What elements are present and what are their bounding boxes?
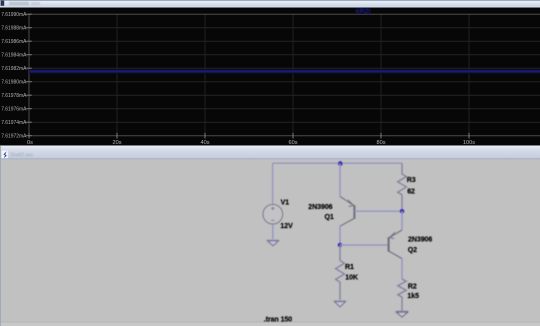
wire: top supply rail bbox=[273, 162, 402, 164]
transistor Q1 (2N3906 PNP, mirrored) bbox=[340, 196, 354, 226]
svg-text:Q2: Q2 bbox=[408, 247, 417, 254]
interior horizontal gridlines bbox=[29, 28, 540, 123]
svg-text:2N3906: 2N3906 bbox=[308, 204, 332, 211]
transistor Q2 (2N3906 PNP) bbox=[389, 230, 402, 259]
ground (R2) bbox=[396, 311, 408, 317]
svg-text:80s: 80s bbox=[376, 140, 385, 146]
svg-text:62: 62 bbox=[407, 189, 415, 196]
svg-text:2N3906: 2N3906 bbox=[408, 237, 432, 244]
svg-text:1k5: 1k5 bbox=[407, 293, 419, 300]
wire: V1 top lead bbox=[272, 163, 274, 204]
ground (V1) bbox=[267, 240, 278, 246]
svg-text:R2: R2 bbox=[408, 283, 417, 290]
svg-text:7.61974mA: 7.61974mA bbox=[1, 120, 27, 126]
svg-text:V1: V1 bbox=[281, 200, 290, 207]
circuit drawing bbox=[263, 161, 432, 323]
wire: Q1 emitter lead bbox=[339, 163, 341, 196]
voltage source V1 bbox=[263, 204, 283, 224]
svg-text:7.61988mA: 7.61988mA bbox=[1, 26, 27, 32]
resistor R2 bbox=[398, 279, 406, 311]
svg-text:20s: 20s bbox=[112, 140, 121, 146]
wire: V1 bottom lead bbox=[272, 224, 274, 239]
plot box border bbox=[29, 14, 540, 136]
svg-text:0s: 0s bbox=[27, 140, 33, 146]
x axis labels bbox=[27, 140, 475, 146]
axis ticks: x bbox=[29, 133, 469, 139]
svg-text:12V: 12V bbox=[280, 223, 293, 230]
wire: Q1 collector lead down bbox=[339, 226, 341, 245]
wire: Q2 emitter lead bbox=[401, 211, 403, 230]
svg-text:100s: 100s bbox=[463, 140, 475, 146]
svg-text:.tran 150: .tran 150 bbox=[264, 317, 293, 324]
svg-text:7.61978mA: 7.61978mA bbox=[1, 93, 27, 99]
resistor R3 bbox=[398, 163, 407, 211]
interior vertical gridlines bbox=[117, 14, 469, 136]
svg-text:7.61986mA: 7.61986mA bbox=[1, 39, 27, 45]
svg-text:Q1: Q1 bbox=[325, 214, 334, 221]
axis ticks: y bbox=[26, 14, 32, 136]
junction: R3 / Q1 base / Q2 emitter bbox=[400, 209, 404, 213]
wire: Q2 collector lead down bbox=[401, 259, 403, 279]
svg-text:7.61990mA: 7.61990mA bbox=[1, 12, 27, 18]
svg-text:I(R2): I(R2) bbox=[356, 8, 371, 15]
svg-text:10K: 10K bbox=[345, 275, 358, 282]
svg-text:40s: 40s bbox=[200, 140, 209, 146]
svg-text:7.61984mA: 7.61984mA bbox=[1, 53, 27, 59]
ground (R1) bbox=[334, 301, 345, 307]
svg-text:60s: 60s bbox=[288, 140, 297, 146]
y axis labels bbox=[1, 12, 27, 140]
svg-text:Draft2.asc: Draft2.asc bbox=[11, 153, 34, 159]
plot grid bbox=[26, 14, 540, 138]
svg-text:7.61976mA: 7.61976mA bbox=[1, 107, 27, 113]
svg-text:7.61980mA: 7.61980mA bbox=[1, 80, 27, 86]
svg-text:R1: R1 bbox=[345, 264, 354, 271]
wire: Q1 base lead to R3 node bbox=[355, 210, 403, 212]
junction: rail / Q1 emitter bbox=[338, 161, 343, 166]
trace I(R2) bbox=[29, 69, 540, 73]
resistor R1 bbox=[336, 245, 345, 300]
wire: Q2 base wire bbox=[340, 244, 388, 246]
svg-text:7.61972mA: 7.61972mA bbox=[1, 134, 27, 140]
junction: Q1 collector / Q2 base / R1 bbox=[338, 243, 342, 247]
svg-text:R3: R3 bbox=[407, 177, 416, 184]
svg-text:7.61982mA: 7.61982mA bbox=[1, 66, 27, 72]
